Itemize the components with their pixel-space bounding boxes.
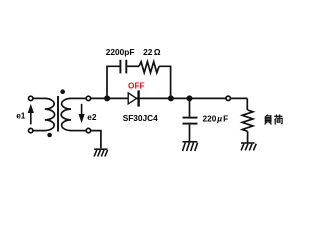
diode D1 SF30JC4 [128,90,138,106]
arrow e2 (down) [79,104,85,123]
wire: main horizontal rail [91,97,248,99]
ground (secondary) [94,149,108,156]
wire: secondary bottom to ground [91,131,101,149]
svg-text:e2: e2 [87,112,97,122]
transformer core [57,96,59,132]
wire: snubber right leg [159,66,171,98]
ground (220uF capacitor) [182,142,197,151]
terminal: secondary top [86,96,90,100]
transformer T1 primary winding [45,98,55,130]
svg-text:OFF: OFF [128,81,145,91]
node J2 [168,95,174,101]
svg-text:220µF: 220µF [203,114,229,124]
terminal: primary top [29,96,33,100]
terminal: primary bottom [29,128,33,132]
svg-text:2200pF: 2200pF [106,47,135,57]
capacitor C 220uF [189,98,191,116]
wire: primary top stub [33,97,45,99]
resistor load zigzag [242,110,253,131]
svg-text:22Ω: 22Ω [143,47,161,57]
svg-text:SF30JC4: SF30JC4 [123,113,158,123]
ground (load) [241,143,256,150]
kanji 負 [265,115,268,118]
resistor R 22ohm zigzag [139,62,159,73]
wire: load to ground [247,131,249,142]
arrow e1 (up) [28,104,34,125]
wire: right corner down to load [246,98,248,110]
svg-text:e1: e1 [16,111,26,121]
node J1 [104,95,110,101]
terminal: secondary bottom [86,128,90,132]
wire: snubber left leg [107,66,120,98]
wire: primary bottom stub [33,130,45,132]
node J3 [187,95,193,101]
wire: secondary top stub [71,97,86,99]
terminal: output open circle [226,96,230,100]
label fuka (load) kanji drawn [265,115,283,125]
capacitor 2200pF plates [119,60,121,74]
polarity dot top (secondary) [60,89,65,94]
wire: cap to resistor [127,65,139,67]
wire: secondary bottom stub [71,130,86,132]
polarity dot bottom (primary) [47,133,52,138]
kanji 荷 [274,115,282,117]
transformer T1 secondary winding [61,98,71,130]
